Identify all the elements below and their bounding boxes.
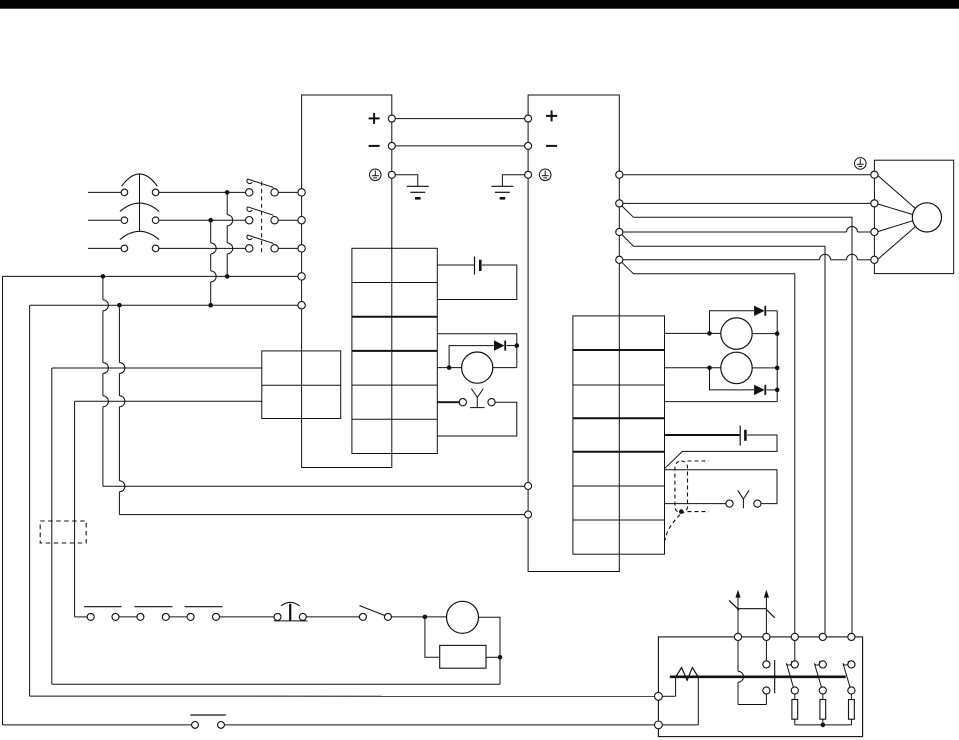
- node lamp-b: [498, 655, 503, 660]
- wire PC1 to ground: [395, 175, 417, 187]
- wire T3r6 to TP2: [665, 503, 726, 505]
- terminal PC1 row 4: [298, 273, 305, 280]
- PC board box PC1 (left): [302, 95, 392, 468]
- node s1-a: [707, 331, 712, 336]
- terminal + PC1: [388, 115, 395, 122]
- terminal PC2 right r3: [616, 228, 623, 235]
- node lamp-a: [423, 615, 428, 620]
- wire R1 out: [486, 656, 500, 658]
- terminal W top 3: [791, 633, 798, 640]
- wire PC2 to motor lead2: [623, 202, 871, 204]
- coil link arc 2: [120, 203, 159, 211]
- wire mid h368: [52, 367, 262, 369]
- wire GS1 right: [752, 333, 777, 335]
- switch S1 pole 2: [246, 207, 279, 224]
- wire left v3: [51, 368, 53, 684]
- ground GND2: [491, 186, 513, 198]
- diode D1: [494, 340, 505, 350]
- fan motor FM: [462, 352, 493, 383]
- node remote: [679, 509, 684, 514]
- diode D2: [754, 306, 765, 316]
- wire GS2 right: [752, 367, 777, 369]
- label + on PC1: [369, 113, 380, 124]
- wire left v4: [74, 401, 76, 617]
- motor M1 leads: [878, 176, 915, 260]
- wire left v5: [103, 276, 109, 486]
- wire diode D2 loop: [710, 311, 778, 334]
- wire TP1 return: [437, 402, 517, 436]
- node row5-b: [208, 303, 213, 308]
- terminal W top 2: [763, 633, 770, 640]
- wire S1 pole 2 to PC1: [278, 219, 298, 221]
- wire S1 pole 3 to PC1: [278, 247, 298, 249]
- node row4-b: [225, 274, 230, 279]
- node J2: [208, 218, 213, 223]
- node fan-b: [447, 365, 452, 370]
- arrow lead A: [735, 590, 740, 633]
- motor box M: [874, 160, 953, 273]
- wire J2 down: [211, 220, 217, 305]
- wire T3r2 to solenoid GS2: [665, 367, 721, 369]
- coil link terminal L2a: [121, 217, 128, 224]
- wire coil3 to S1: [159, 247, 246, 249]
- terminal motor t2: [871, 200, 878, 207]
- wire PC2 to motor lead4: [623, 254, 871, 260]
- resistor RW1: [792, 694, 798, 725]
- terminal PE PC1: [388, 171, 395, 178]
- node J1: [225, 190, 230, 195]
- terminal motor t4: [871, 256, 878, 263]
- terminal motor t1: [871, 171, 878, 178]
- wire T2r1 to capacitor C1: [437, 264, 474, 266]
- wire chain 1-2: [119, 616, 137, 618]
- terminal PC2 right r1: [616, 171, 623, 178]
- node row4-a: [101, 274, 106, 279]
- thermostat TH1: [84, 607, 122, 621]
- wire T3r5 rail: [665, 470, 777, 504]
- coil linkage line: [139, 174, 141, 231]
- wire chain 2-3: [169, 616, 187, 618]
- contactor box W: [658, 637, 862, 737]
- thermostat TH3: [185, 607, 223, 621]
- solenoid GS2: [721, 352, 752, 383]
- switch W k3: [843, 661, 855, 694]
- wire h514 to PC2: [119, 514, 524, 516]
- wire T3r4 to capacitor C2: [665, 434, 740, 436]
- switch S1 linkage (dashed): [261, 182, 263, 253]
- terminal W top 5: [848, 633, 855, 640]
- wire W heater in: [662, 678, 675, 696]
- wire T2r3 to fan loop: [437, 334, 517, 368]
- contact K1: [763, 660, 775, 694]
- node fan-a: [515, 343, 520, 348]
- switch W k2: [814, 661, 826, 694]
- wire input stub row2: [88, 219, 121, 221]
- switch S1 pole 3: [246, 235, 279, 252]
- resistor RW2: [820, 694, 826, 725]
- node W common: [821, 723, 826, 728]
- wire C2 return: [665, 435, 777, 468]
- wire W t3 down: [794, 641, 796, 661]
- wire chain 3-PB: [220, 616, 275, 618]
- wire row5: [30, 304, 298, 306]
- terminal - PC1: [388, 142, 395, 149]
- wire bottom h684: [52, 683, 500, 685]
- link bar: [738, 608, 766, 610]
- terminal PC2 left a: [525, 483, 532, 490]
- remote jumper capsule (dashed): [675, 461, 688, 513]
- label - on PC2: [546, 145, 557, 147]
- capacitor C2: [740, 426, 745, 446]
- wire W t1 down: [738, 641, 766, 705]
- wire J1 down: [227, 192, 233, 276]
- wire left v2: [29, 305, 31, 696]
- wire lamp right: [479, 617, 501, 684]
- ground GND1: [407, 186, 429, 198]
- dashed lead upper: [688, 460, 709, 462]
- terminal W left1: [655, 692, 663, 700]
- PC2 bottom edge: [528, 571, 619, 573]
- wire - bus: [395, 145, 524, 147]
- terminal PC1 row 1: [298, 189, 305, 196]
- switch S1 pole 1: [246, 179, 279, 196]
- pilot lamp PL1: [447, 601, 479, 633]
- pushbutton PB1: [274, 602, 308, 621]
- wire diode D3 loop: [710, 368, 778, 390]
- contactor bar W: [670, 675, 846, 678]
- wire branch r3 drop: [622, 235, 825, 634]
- coil link terminal L2b: [152, 217, 159, 224]
- terminal PC1 row 3: [298, 245, 305, 252]
- wire T2r5 to thermostat TP1: [437, 401, 459, 403]
- PE symbol PC1: [370, 169, 382, 181]
- wire fan right: [493, 367, 517, 369]
- diode D3: [754, 385, 765, 395]
- overload heater OL: [676, 668, 699, 681]
- label - on PC1: [369, 145, 380, 147]
- wire row4: [3, 275, 298, 277]
- wire PB-S2: [306, 616, 359, 618]
- wire T3r1 to solenoid GS1: [665, 332, 721, 334]
- coil link terminal L1a: [121, 189, 128, 196]
- wire branch r4 drop: [622, 262, 795, 633]
- solenoid GS1: [721, 318, 752, 349]
- wire PC2 to motor lead3: [623, 227, 871, 232]
- plug PLG1: [190, 715, 225, 728]
- wire W resistor common: [795, 724, 852, 726]
- link slash A: [729, 600, 739, 610]
- thermostat TH2: [134, 607, 172, 621]
- wire bottom h725 right: [225, 724, 655, 726]
- PE symbol motor: [855, 158, 867, 170]
- wire + bus: [395, 118, 524, 120]
- wire h486 to PC2: [103, 485, 525, 487]
- terminal PC2 right r4: [616, 256, 623, 263]
- capacitor C1: [475, 257, 481, 275]
- coil link terminal L3b: [152, 245, 159, 252]
- resistor R1: [440, 645, 486, 668]
- wire coil2 to S1: [159, 219, 246, 221]
- terminal W left2: [655, 721, 663, 729]
- wire C1 return: [437, 265, 517, 300]
- label + on PC2: [546, 110, 557, 121]
- terminal PE PC2: [525, 171, 532, 178]
- node s2-b: [775, 366, 780, 371]
- wire left v1: [2, 276, 4, 725]
- PE symbol PC2: [539, 169, 551, 181]
- wire chain start: [75, 616, 88, 618]
- terminal strip T2: [352, 248, 437, 453]
- terminal strip T3: [573, 316, 665, 554]
- coil link arc 1: [122, 174, 158, 186]
- wire S2-lamp: [391, 616, 446, 618]
- thermostat TP2: [726, 490, 761, 508]
- link slash B: [767, 610, 775, 618]
- arrow lead B: [764, 590, 769, 633]
- motor M1: [912, 203, 941, 232]
- resistor RW3: [849, 694, 855, 725]
- terminal PC2 right r2: [616, 200, 623, 207]
- terminal W top 4: [819, 633, 826, 640]
- node s1-b: [775, 331, 780, 336]
- wire coil1 to S1: [159, 191, 246, 193]
- wire PC2 to motor lead1: [623, 174, 871, 176]
- terminal PC1 row 2: [298, 217, 305, 224]
- optional component box (dashed): [40, 521, 86, 543]
- wire diode D1 branch: [449, 346, 517, 368]
- wire T2r4 to fan: [437, 367, 461, 369]
- thermostat TP1: [459, 389, 495, 408]
- switch W k1: [786, 661, 798, 694]
- wire bottom h725 left: [3, 724, 192, 726]
- switch S2: [359, 606, 391, 621]
- terminal - PC2: [525, 142, 532, 149]
- node row5-a: [117, 303, 122, 308]
- wire input stub row1: [88, 191, 121, 193]
- node s3: [775, 388, 780, 393]
- wire left v6: [119, 305, 125, 514]
- wire branch r2 drop: [622, 206, 852, 633]
- component box T1 (small): [262, 351, 341, 419]
- coil link arc 3: [120, 231, 159, 239]
- terminal motor t3: [871, 228, 878, 235]
- node s2-a: [707, 366, 712, 371]
- wire bottom h696: [30, 695, 655, 697]
- wire W t2 down: [765, 641, 767, 661]
- wire mid h401: [75, 400, 262, 402]
- wire T3r3 common: [665, 334, 778, 402]
- coil link terminal L3a: [121, 245, 128, 252]
- page header bar: [0, 0, 959, 9]
- wire W heater out: [662, 678, 698, 725]
- terminal + PC2: [525, 115, 532, 122]
- dashed lead lower: [688, 511, 709, 513]
- wire PC2 to ground: [502, 175, 524, 187]
- dashed jumper arc: [665, 515, 680, 541]
- wire S1 pole 1 to PC1: [278, 191, 298, 193]
- terminal W top 1: [734, 633, 741, 640]
- PC board box PC2 (right): [528, 95, 619, 572]
- wire resistor branch: [425, 617, 440, 657]
- coil link terminal L1b: [152, 189, 159, 196]
- terminal PC1 row 5: [298, 302, 305, 309]
- terminal PC2 left b: [525, 511, 532, 518]
- wire input stub row3: [88, 247, 121, 249]
